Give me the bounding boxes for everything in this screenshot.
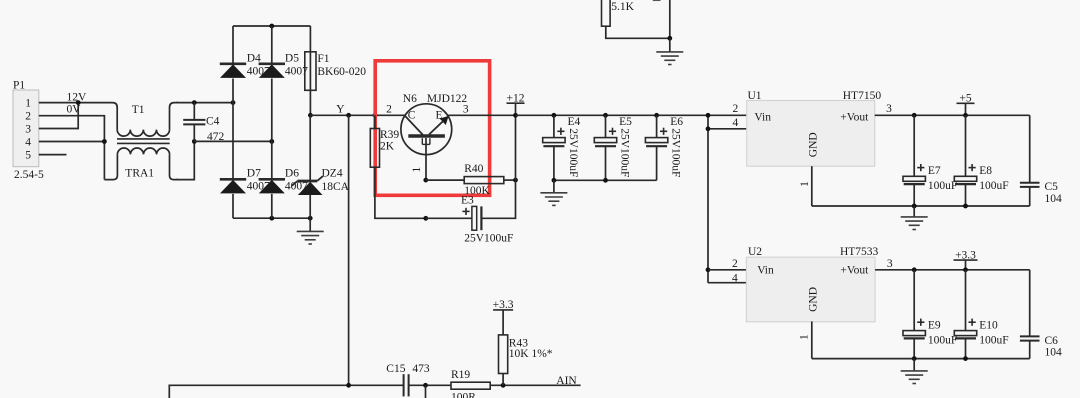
junction E7 bottom on ground rail — [912, 204, 917, 209]
wire fragment at top edge — [653, 0, 661, 1]
svg-text:473: 473 — [412, 363, 430, 375]
diode D4 refdes label — [247, 52, 261, 64]
junction pin1-pin3 12V net — [76, 100, 81, 105]
svg-text:E: E — [436, 109, 443, 121]
highlight box around transistor N6 — [375, 61, 489, 196]
wire C5 bottom to ground rail — [1029, 187, 1031, 206]
transformer T1 core — [117, 139, 170, 144]
capacitor C6 — [1020, 336, 1040, 340]
svg-text:Vin: Vin — [754, 111, 771, 123]
ground at top 5.1K — [656, 52, 683, 65]
IC U2 body — [746, 257, 875, 322]
junction E6 top on plus12 rail — [654, 113, 659, 118]
svg-text:T1: T1 — [132, 104, 145, 116]
connector P1 body — [13, 90, 39, 167]
wire branch down from C15-R19 node — [425, 385, 427, 398]
wire transformer secondary right lead down — [170, 154, 179, 179]
capacitor E7 — [903, 176, 925, 184]
wire E8 top lead — [965, 115, 967, 176]
IC U2 part number HT7533 — [840, 246, 879, 258]
wire C5 branch down — [1029, 115, 1031, 182]
IC U1 pin number 1 rotated — [799, 181, 811, 187]
wire U1 ground rail — [812, 205, 1030, 207]
junction C4 bottom — [192, 139, 197, 144]
wire R19 to AIN — [490, 384, 580, 386]
junction E9 top on Vout — [912, 267, 917, 272]
wire 0V bus to secondary left lead — [104, 154, 117, 179]
svg-text:C4: C4 — [206, 115, 220, 127]
svg-text:R19: R19 — [451, 369, 470, 381]
wire top ground stem — [669, 38, 671, 52]
capacitor E6 value label 25V100uF rotated — [670, 128, 682, 177]
wire U1 GND pin down — [811, 166, 813, 206]
power flag +3.3 at R43 — [493, 299, 514, 335]
junction AC1 at bridge left column — [231, 100, 236, 105]
svg-text:3: 3 — [887, 258, 893, 270]
transistor N6 pin label C — [408, 109, 416, 121]
wire E7 bottom lead — [913, 184, 915, 206]
transistor N6 refdes label — [403, 93, 417, 105]
net label 0V — [67, 104, 82, 116]
transformer T1 refdes label — [132, 104, 145, 116]
transistor N6 emitter diagonal with arrow — [429, 116, 449, 135]
wire U1 Vout line — [875, 114, 1030, 116]
IC U1 pin number 2 — [733, 103, 739, 115]
wire DZ4 top — [309, 115, 311, 181]
junction E8 top on Vout — [963, 113, 968, 118]
net label AIN — [556, 375, 577, 387]
junction AC2 at bridge right column — [269, 139, 274, 144]
junction U1 pin4 branch — [706, 126, 711, 131]
wire E4 ground stem — [553, 180, 555, 193]
capacitor E7 plus sign — [917, 164, 924, 171]
capacitor E3 refdes label — [461, 194, 474, 206]
wire Y net to transistor collector — [310, 114, 405, 116]
transistor N6 darlington base glyph — [422, 138, 430, 144]
wire E3 right to plus12 column — [481, 115, 515, 218]
fuse F1 — [305, 52, 316, 91]
junction plus12 flag emitter rail — [513, 113, 518, 118]
wire E6 top lead — [656, 115, 658, 137]
svg-text:GND: GND — [808, 287, 820, 312]
transistor N6 pin number 2 — [386, 103, 392, 115]
IC U2 pin name +Vout — [840, 265, 869, 277]
junction E10 bottom on ground rail — [963, 356, 968, 361]
resistor R40 refdes label — [464, 163, 483, 175]
wire E6 bottom lead — [656, 146, 658, 180]
capacitor E5 value label 25V100uF rotated — [619, 128, 631, 177]
svg-text:2: 2 — [732, 258, 738, 270]
IC U2 pin name Vin — [757, 265, 774, 277]
svg-text:2K: 2K — [380, 141, 395, 153]
transistor N6 pin number 3 — [463, 103, 469, 115]
svg-text:5.1K: 5.1K — [611, 1, 634, 13]
svg-text:100uF: 100uF — [928, 334, 957, 346]
svg-text:R40: R40 — [464, 163, 483, 175]
capacitor E8 refdes label — [979, 165, 992, 177]
svg-text:R39: R39 — [380, 129, 399, 141]
junction E8 bottom on ground rail — [963, 204, 968, 209]
IC U1 pin name GND rotated — [808, 132, 820, 157]
IC U1 refdes label — [748, 90, 762, 102]
capacitor E10 value label 100uF — [979, 334, 1008, 346]
svg-text:MJD122: MJD122 — [427, 93, 468, 105]
svg-text:2: 2 — [733, 103, 739, 115]
connector P1 pin number 1 — [25, 98, 31, 110]
wire base node to E3 — [426, 217, 472, 219]
wire AC2 to bridge right column — [194, 140, 271, 142]
junction C15 R19 branch down — [423, 383, 428, 388]
resistor R43 — [499, 335, 508, 374]
wire U1 pin4 branch — [708, 128, 747, 130]
svg-text:C: C — [408, 109, 416, 121]
svg-text:TRA1: TRA1 — [125, 167, 154, 179]
wire D7 column bottom — [232, 194, 234, 218]
capacitor E9 — [903, 331, 925, 339]
wire D4-D7 column middle — [232, 79, 234, 180]
zener DZ4 refdes label — [322, 167, 343, 179]
wire E4 bottom lead — [553, 146, 555, 180]
svg-text:1: 1 — [799, 181, 811, 187]
svg-text:D7: D7 — [247, 167, 261, 179]
junction E7 top on Vout — [912, 113, 917, 118]
wire top vertical at ground junction — [669, 0, 671, 38]
capacitor C15 value label 473 — [412, 363, 430, 375]
svg-text:25V100uF: 25V100uF — [619, 128, 631, 177]
capacitor E3 value label 25V100uF — [464, 232, 513, 244]
diode D6 value label 4007 — [285, 181, 308, 193]
transistor N6 pin label E — [436, 109, 443, 121]
junction E9 bottom on ground rail — [912, 356, 917, 361]
svg-text:U2: U2 — [748, 246, 762, 258]
svg-text:HT7533: HT7533 — [840, 246, 879, 258]
junction bottom rail D6 column — [269, 216, 274, 221]
capacitor C5 refdes label — [1045, 181, 1059, 193]
wire N6 base lead down — [425, 138, 427, 180]
connector P1 refdes label — [13, 80, 25, 92]
capacitor C4 — [183, 103, 205, 142]
capacitor E3 plus sign — [462, 208, 469, 215]
wire bridge top rail — [233, 25, 310, 27]
wire plus12 branch down to U2 — [707, 115, 709, 282]
svg-text:+Vout: +Vout — [840, 265, 869, 277]
capacitor C6 refdes label — [1045, 335, 1059, 347]
svg-text:Y: Y — [336, 104, 345, 116]
svg-text:25V100uF: 25V100uF — [464, 232, 513, 244]
wire C6 bottom to ground rail — [1029, 341, 1031, 359]
junction U1 pin branch — [706, 113, 711, 118]
capacitor E8 — [954, 176, 976, 184]
junction F1 DZ4 Y net — [308, 113, 313, 118]
wire D4 column — [232, 26, 234, 64]
wire E9 top lead — [913, 270, 915, 331]
svg-text:10K 1%*: 10K 1%* — [509, 348, 553, 360]
svg-text:C5: C5 — [1045, 181, 1059, 193]
capacitor E10 refdes label — [979, 320, 998, 332]
svg-text:1: 1 — [411, 167, 423, 173]
capacitor E6 plus sign — [660, 128, 667, 135]
wire D5-D6 column middle — [271, 79, 273, 180]
svg-text:25V100uF: 25V100uF — [567, 128, 579, 177]
junction pin2-pin4 0V net — [102, 139, 107, 144]
svg-text:4: 4 — [732, 273, 738, 285]
resistor value label 5.1K — [611, 1, 634, 13]
IC U1 pin number 3 — [886, 103, 892, 115]
svg-text:P1: P1 — [13, 80, 25, 92]
diode D5 refdes label — [285, 52, 299, 64]
power flag +3.3 at U2 — [954, 249, 978, 270]
transformer T1 secondary winding — [117, 148, 169, 154]
junction base E3 R39 node — [423, 216, 428, 221]
svg-text:BK60-020: BK60-020 — [317, 66, 366, 78]
IC U1 part number HT7150 — [843, 90, 882, 102]
IC U2 refdes label — [748, 246, 762, 258]
wire P1 pin1 12V to transformer primary left — [39, 103, 117, 130]
diode D6 — [259, 179, 285, 193]
wire base to R40 — [426, 179, 464, 181]
capacitor C5 — [1020, 183, 1040, 187]
svg-text:U1: U1 — [748, 90, 762, 102]
wire P1 pin2 0V to down bus — [39, 116, 105, 180]
svg-text:100uF: 100uF — [928, 180, 957, 192]
junction Y branch down — [346, 113, 351, 118]
svg-text:C6: C6 — [1045, 335, 1059, 347]
capacitor C15 refdes label — [386, 363, 405, 375]
wire E4-E6 ground rail — [554, 179, 657, 181]
junction E4 bottom ground — [552, 178, 557, 183]
resistor R39 refdes label — [380, 129, 399, 141]
svg-text:C15: C15 — [386, 363, 405, 375]
diode D4 — [220, 64, 246, 78]
svg-text:D5: D5 — [285, 52, 299, 64]
wire R43 bottom lead — [502, 374, 504, 386]
diode D7 — [220, 179, 246, 193]
junction 5.1K ground node — [667, 36, 672, 41]
diode D5 — [259, 64, 285, 78]
capacitor E7 refdes label — [928, 165, 941, 177]
svg-text:D6: D6 — [285, 167, 299, 179]
svg-text:104: 104 — [1045, 346, 1063, 358]
wire E7 top lead — [913, 115, 915, 176]
capacitor C4 value label 472 — [207, 131, 225, 143]
capacitor E4 — [543, 138, 565, 147]
svg-text:3: 3 — [886, 103, 892, 115]
capacitor E6 — [645, 138, 667, 147]
capacitor E9 plus sign — [917, 319, 924, 326]
resistor R19 refdes label — [451, 369, 470, 381]
svg-text:100R: 100R — [451, 392, 476, 398]
wire U2 pin4 — [708, 282, 746, 284]
wire E5 top lead — [605, 115, 607, 137]
wire D6 column bottom — [271, 194, 273, 218]
resistor 5.1K body (cut off at top) — [602, 0, 611, 26]
diode D7 refdes label — [247, 167, 261, 179]
svg-text:AIN: AIN — [556, 375, 577, 387]
wire transformer primary right lead up — [170, 103, 179, 130]
resistor R43 value label 10K 1%* — [509, 348, 553, 360]
power flag +5 — [957, 93, 975, 116]
wire R39 top lead — [374, 115, 376, 128]
svg-text:HT7150: HT7150 — [843, 90, 882, 102]
svg-text:3: 3 — [463, 103, 469, 115]
wire E10 bottom lead — [965, 338, 967, 358]
fuse F1 value label BK60-020 — [317, 66, 366, 78]
capacitor C6 value label 104 — [1045, 346, 1063, 358]
ground under E7 — [901, 217, 928, 230]
resistor R40 — [464, 177, 504, 184]
transistor N6 base bar — [408, 134, 445, 138]
connector P1 pin number 4 — [25, 137, 31, 149]
svg-text:E10: E10 — [979, 320, 998, 332]
svg-text:F1: F1 — [317, 53, 329, 65]
wire bridge ground stem — [309, 218, 311, 231]
wire U2 pin2 — [708, 269, 746, 271]
capacitor E9 value label 100uF — [928, 334, 957, 346]
capacitor C15 — [404, 374, 409, 396]
resistor R40 value label 100K — [464, 185, 490, 197]
capacitor E7 value label 100uF — [928, 180, 957, 192]
wire F1 column — [309, 26, 311, 115]
IC U2 pin number 4 — [732, 273, 738, 285]
resistor R19 value label 100R — [451, 392, 476, 398]
resistor R39 — [370, 129, 379, 168]
junction E5 top on plus12 rail — [603, 113, 608, 118]
svg-text:E7: E7 — [928, 165, 941, 177]
transistor N6 value label MJD122 — [427, 93, 468, 105]
wire E9 bottom lead — [913, 338, 915, 358]
capacitor E3 polarized — [472, 206, 482, 230]
svg-text:1: 1 — [25, 98, 31, 110]
fuse F1 refdes label — [317, 53, 329, 65]
wire E9 ground stem — [913, 359, 915, 371]
svg-text:GND: GND — [808, 132, 820, 157]
diode D6 refdes label — [285, 167, 299, 179]
wire E5 bottom lead — [605, 146, 607, 180]
junction bottom rail DZ4 column — [308, 216, 313, 221]
svg-text:100uF: 100uF — [979, 334, 1008, 346]
junction base R40 left — [423, 178, 428, 183]
capacitor E9 refdes label — [928, 320, 941, 332]
svg-text:4: 4 — [25, 137, 31, 149]
svg-text:E8: E8 — [979, 165, 992, 177]
capacitor C5 value label 104 — [1045, 193, 1063, 205]
resistor R19 — [451, 382, 490, 389]
svg-text:E4: E4 — [568, 116, 581, 128]
wire U2 Vout line — [875, 269, 1030, 271]
junction R40 right plus12 column — [513, 178, 518, 183]
diode D7 value label 4007 — [247, 181, 270, 193]
net label 12V — [67, 92, 88, 104]
diode D5 value label 4007 — [285, 65, 308, 77]
wire E10 top lead — [965, 270, 967, 331]
wire plus12 rail to U1 — [516, 114, 747, 116]
capacitor E8 plus sign — [969, 164, 976, 171]
wire 5.1K bottom lead — [606, 26, 670, 38]
net label Y — [336, 104, 345, 116]
junction E5 bottom — [603, 178, 608, 183]
junction C4 top — [192, 100, 197, 105]
transistor N6 collector diagonal — [405, 116, 423, 135]
junction top rail D5 column — [269, 24, 274, 29]
IC U2 pin name GND rotated — [808, 287, 820, 312]
wire C6 branch down — [1029, 270, 1031, 337]
wire bridge bottom rail — [233, 217, 310, 219]
capacitor E4 refdes label — [568, 116, 581, 128]
capacitor E5 refdes label — [619, 116, 632, 128]
IC U2 pin number 1 rotated — [798, 334, 810, 340]
wire secondary right to C4 bottom — [176, 141, 194, 179]
svg-text:E6: E6 — [670, 116, 683, 128]
wire E4 top lead — [553, 115, 555, 137]
junction E4 top on plus12 rail — [552, 113, 557, 118]
svg-text:2: 2 — [25, 111, 31, 123]
svg-text:1: 1 — [798, 334, 810, 340]
capacitor E10 — [954, 331, 976, 339]
wire N6 emitter to plus12 rail — [448, 114, 516, 116]
wire R40 right lead — [504, 179, 516, 181]
svg-text:472: 472 — [207, 131, 225, 143]
svg-text:2: 2 — [386, 103, 392, 115]
ground under E9 — [901, 371, 928, 384]
svg-text:4: 4 — [733, 117, 739, 129]
ground at bridge — [297, 231, 324, 244]
svg-text:DZ4: DZ4 — [322, 167, 343, 179]
diode D4 value label 4007 — [247, 65, 270, 77]
transformer T1 value label TRA1 — [125, 167, 154, 179]
svg-text:3: 3 — [25, 124, 31, 136]
svg-text:100uF: 100uF — [979, 180, 1008, 192]
IC U1 pin name +Vout — [840, 111, 869, 123]
junction R19 R43 AIN node — [501, 383, 506, 388]
svg-text:104: 104 — [1045, 193, 1063, 205]
zener DZ4 value label 18CA — [322, 181, 350, 193]
wire C15 to R19 — [409, 384, 451, 386]
connector P1 pin number 2 — [25, 111, 31, 123]
svg-text:E3: E3 — [461, 194, 474, 206]
svg-text:12V: 12V — [67, 92, 88, 104]
svg-text:2.54-5: 2.54-5 — [14, 169, 44, 181]
connector P1 pin number 3 — [25, 124, 31, 136]
svg-text:N6: N6 — [403, 93, 417, 105]
IC U1 pin name Vin — [754, 111, 771, 123]
zener diode DZ4 — [292, 176, 323, 195]
svg-text:5: 5 — [25, 150, 31, 162]
capacitor E4 value label 25V100uF rotated — [567, 128, 579, 177]
wire R39 bottom lead to base net — [375, 167, 426, 218]
wire E7 ground stem — [913, 206, 915, 217]
svg-text:0V: 0V — [67, 104, 82, 116]
transformer T1 primary winding — [117, 130, 169, 137]
capacitor E10 plus sign — [969, 319, 976, 326]
svg-text:E5: E5 — [619, 116, 632, 128]
capacitor E8 value label 100uF — [979, 180, 1008, 192]
wire P1 pin3 up to 12V net — [39, 103, 78, 129]
svg-text:E9: E9 — [928, 320, 941, 332]
resistor R43 refdes label — [509, 337, 528, 349]
capacitor E5 plus sign — [609, 128, 616, 135]
junction R39 top — [373, 113, 378, 118]
svg-text:+Vout: +Vout — [840, 111, 869, 123]
connector P1 pin number 5 — [25, 150, 31, 162]
wire U2 GND pin down — [811, 321, 813, 358]
svg-text:25V100uF: 25V100uF — [670, 128, 682, 177]
ground under E4 — [540, 193, 567, 206]
wire P1 pin5 stub — [39, 154, 67, 156]
wire D5 column — [271, 26, 273, 64]
wire DZ4 bottom — [309, 195, 311, 218]
IC U1 body — [747, 101, 875, 167]
junction E10 top on Vout — [963, 267, 968, 272]
